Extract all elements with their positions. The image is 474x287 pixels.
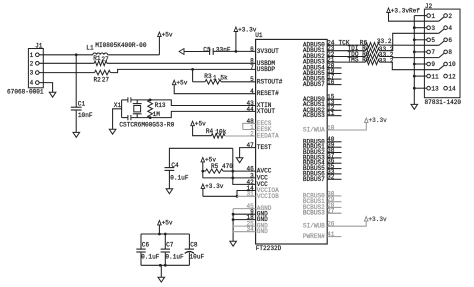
svg-text:GND: GND	[257, 228, 268, 235]
svg-text:J2: J2	[425, 3, 433, 10]
svg-text:14: 14	[448, 85, 456, 92]
svg-text:33.2: 33.2	[377, 38, 392, 45]
svg-text:2: 2	[448, 13, 452, 20]
svg-text:C6: C6	[142, 242, 150, 249]
svg-text:+5v: +5v	[176, 80, 187, 87]
svg-text:27: 27	[102, 76, 110, 83]
svg-text:+3.3v: +3.3v	[369, 117, 388, 124]
svg-text:7: 7	[431, 49, 435, 56]
svg-text:13: 13	[431, 85, 439, 92]
svg-text:C4: C4	[171, 162, 179, 169]
svg-text:4: 4	[30, 80, 34, 87]
svg-text:+5v: +5v	[162, 31, 173, 38]
svg-text:ACBUS3: ACBUS3	[303, 112, 325, 119]
svg-text:R5 470: R5 470	[211, 163, 233, 170]
svg-text:PWREN#: PWREN#	[303, 233, 325, 240]
svg-text:VCCIOB: VCCIOB	[257, 193, 279, 200]
svg-text:8: 8	[448, 49, 452, 56]
svg-text:ADBUS7: ADBUS7	[303, 81, 325, 88]
svg-text:R4: R4	[206, 128, 214, 135]
svg-text:RSTOUT#: RSTOUT#	[257, 78, 283, 85]
svg-text:3V3OUT: 3V3OUT	[257, 48, 279, 55]
svg-text:CSTCR6M00G53-R0: CSTCR6M00G53-R0	[119, 121, 174, 128]
svg-text:R2: R2	[94, 76, 102, 83]
svg-text:4: 4	[448, 25, 452, 32]
svg-text:MI0805K400R-00: MI0805K400R-00	[95, 42, 147, 49]
svg-text:X1: X1	[114, 102, 122, 109]
svg-text:33.2: 33.2	[379, 57, 394, 64]
svg-text:TEST: TEST	[257, 144, 272, 151]
svg-text:5: 5	[431, 37, 435, 44]
svg-text:BCBUS3: BCBUS3	[303, 210, 325, 217]
svg-text:+3.3vRef: +3.3vRef	[391, 7, 421, 14]
svg-text:C5: C5	[203, 47, 211, 54]
svg-text:27: 27	[101, 56, 109, 63]
svg-text:R1: R1	[93, 55, 101, 62]
svg-text:R13: R13	[155, 102, 166, 109]
svg-text:6: 6	[448, 37, 452, 44]
svg-text:J1: J1	[35, 43, 43, 50]
svg-text:+3.3v: +3.3v	[368, 216, 387, 223]
svg-text:33nF: 33nF	[216, 47, 231, 54]
svg-text:10: 10	[448, 61, 456, 68]
svg-text:SI/WUA: SI/WUA	[303, 127, 325, 134]
svg-text:10k: 10k	[215, 128, 226, 135]
svg-text:0.1uF: 0.1uF	[170, 174, 189, 181]
svg-text:67068-0001: 67068-0001	[7, 88, 44, 95]
svg-text:2: 2	[30, 60, 34, 67]
svg-text:+3.3v: +3.3v	[205, 183, 224, 190]
svg-text:1M: 1M	[153, 111, 161, 118]
svg-text:TMS R9: TMS R9	[348, 56, 370, 63]
svg-text:10uF: 10uF	[190, 254, 205, 261]
svg-text:+5v: +5v	[195, 121, 206, 128]
svg-text:FT2232D: FT2232D	[256, 245, 282, 252]
svg-text:C8: C8	[190, 242, 198, 249]
svg-text:USBDP: USBDP	[257, 66, 276, 73]
svg-text:9: 9	[431, 61, 435, 68]
svg-text:EEDATA: EEDATA	[257, 133, 279, 140]
svg-text:1: 1	[431, 13, 435, 20]
svg-text:L1: L1	[86, 44, 94, 51]
svg-text:0.1uF: 0.1uF	[165, 254, 184, 261]
svg-text:R3: R3	[204, 73, 212, 80]
svg-text:SI/WUB: SI/WUB	[303, 223, 325, 230]
svg-text:0.1uF: 0.1uF	[141, 254, 160, 261]
svg-text:87831-1420: 87831-1420	[425, 99, 462, 106]
svg-text:10nF: 10nF	[78, 112, 93, 119]
svg-text:C1: C1	[78, 100, 86, 107]
svg-text:+5v: +5v	[162, 220, 173, 227]
svg-text:C7: C7	[166, 242, 174, 249]
svg-text:12: 12	[448, 73, 456, 80]
svg-text:BDBUS7: BDBUS7	[303, 176, 325, 183]
svg-text:XTOUT: XTOUT	[257, 108, 276, 115]
svg-text:+3.3v: +3.3v	[238, 26, 257, 33]
svg-text:3: 3	[431, 25, 435, 32]
svg-text:RESET#: RESET#	[257, 90, 279, 97]
svg-text:3: 3	[30, 70, 34, 77]
svg-text:1.5k: 1.5k	[213, 75, 228, 82]
svg-text:11: 11	[431, 73, 439, 80]
svg-text:1: 1	[30, 52, 34, 59]
